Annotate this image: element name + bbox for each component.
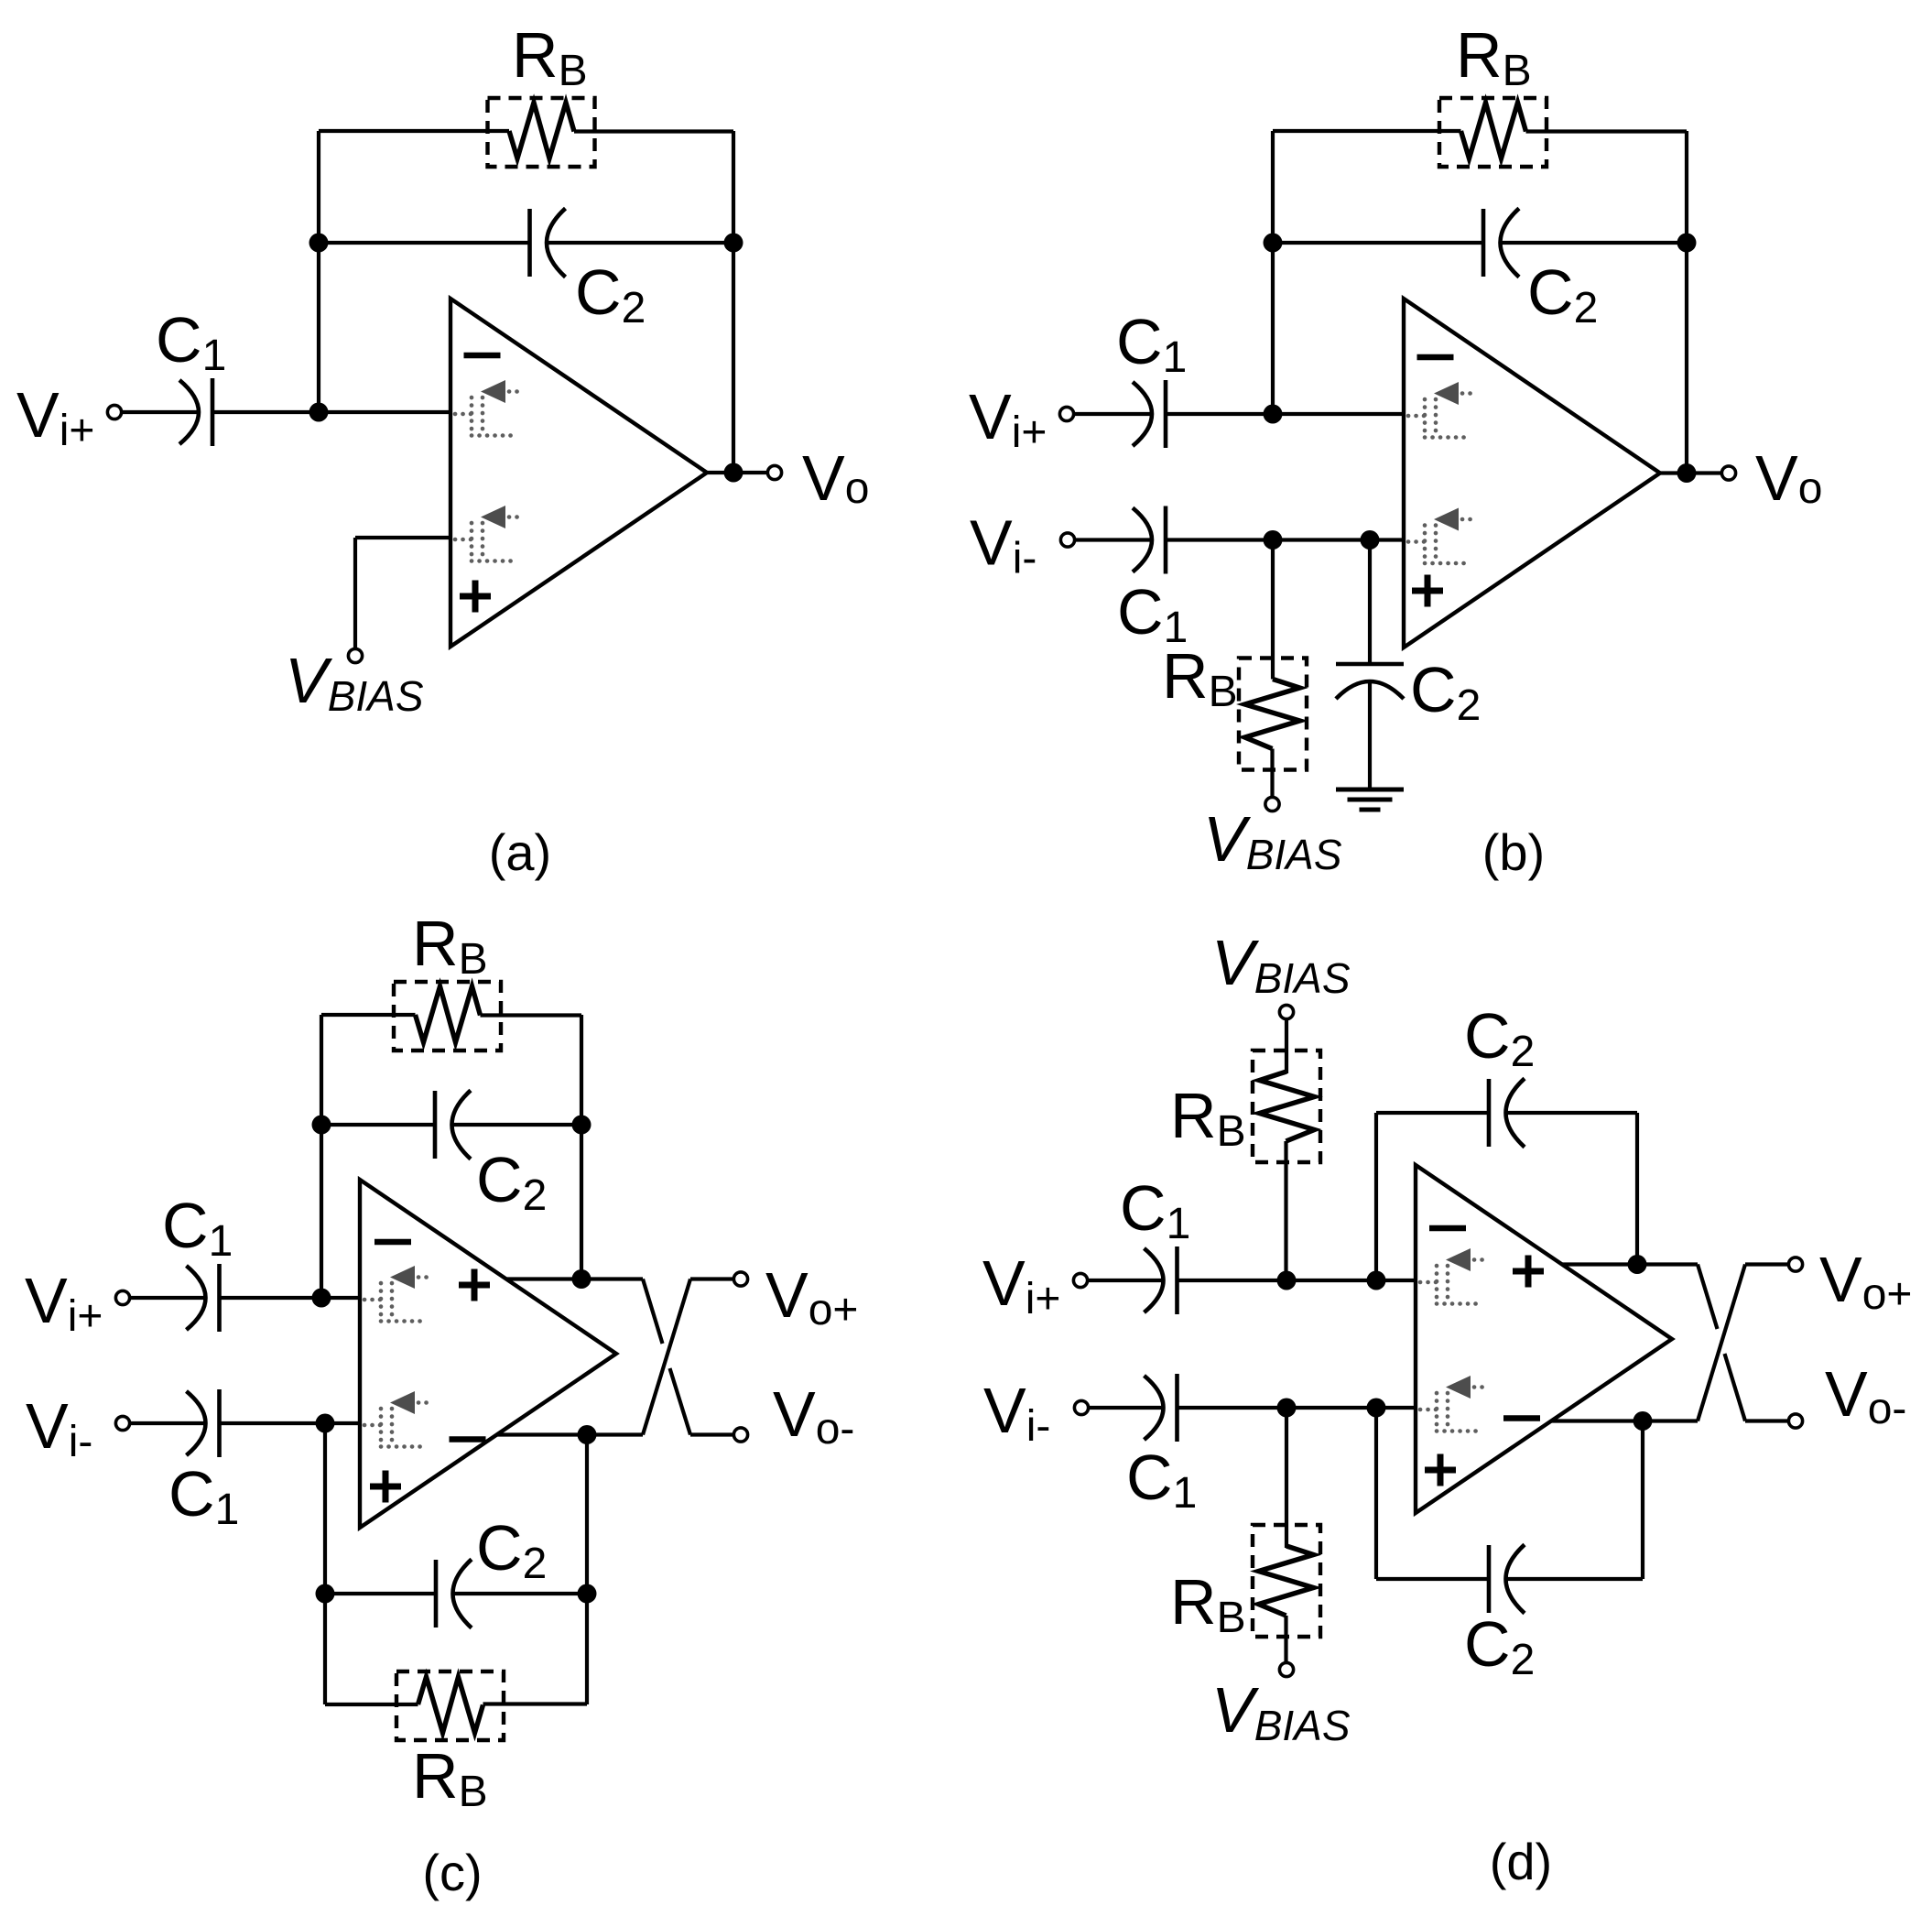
node Vi+ C2 junction (d): [1367, 1271, 1386, 1290]
label Vo- (c): [773, 1378, 854, 1453]
op-amp U2: [1404, 299, 1660, 648]
capacitor C1 upper (d): [1145, 1246, 1178, 1314]
transistor icon upper input U2: [1408, 382, 1475, 438]
label RB bottom (c): [412, 1740, 488, 1816]
plus sign non-inverting input U1: [460, 581, 491, 613]
wire right vertical top (c): [580, 1015, 583, 1279]
wire top feedback left segment: [319, 129, 509, 133]
capacitor C1 upper (b): [1133, 380, 1166, 448]
minus sign lower output U4: [1503, 1415, 1540, 1421]
terminal Vi- (d): [1074, 1400, 1088, 1414]
wire C2 line right segment (b): [1502, 241, 1688, 245]
node top C2 left junction (c): [312, 1116, 331, 1135]
plus sign lower input U3: [370, 1471, 401, 1503]
wire right vertical bottom (d): [1641, 1421, 1644, 1580]
capacitor C2 bottom (d): [1489, 1545, 1525, 1614]
label Vo- (d): [1825, 1358, 1906, 1433]
terminal Vo- (d): [1788, 1414, 1802, 1428]
label C1 upper (d): [1120, 1172, 1190, 1248]
wire Vi- line to RB bottom (d): [1285, 1408, 1288, 1548]
capacitor C1 (a): [179, 378, 212, 446]
node Vi- RB junction (b): [1264, 530, 1283, 550]
terminal VBIAS (a): [348, 648, 362, 662]
terminal Vo+ (c): [733, 1272, 747, 1286]
resistor RB bias (b): [1239, 659, 1307, 770]
label RB top (d): [1170, 1080, 1246, 1156]
label C1 lower (b): [1117, 576, 1188, 652]
terminal Vo- (c): [733, 1428, 747, 1442]
label C1 upper (c): [162, 1190, 233, 1266]
label VBIAS top (d): [1211, 927, 1351, 1002]
wire Vi+ to C1 (d): [1088, 1279, 1164, 1282]
wire output: [707, 471, 767, 474]
wire right vertical bottom (c): [585, 1435, 589, 1705]
wire bottom C2 line left (d): [1376, 1577, 1489, 1581]
wire C1 to inverting input: [212, 410, 450, 414]
label Vo (b): [1755, 442, 1822, 514]
label Vi+ (b): [969, 381, 1047, 457]
wire C1 to upper input (d): [1178, 1279, 1416, 1282]
node inverting input junction (b): [1264, 405, 1283, 424]
transistor icon upper input U1: [455, 380, 522, 436]
wire left vertical feedback: [317, 131, 320, 412]
wire C2 shunt to ground (b): [1368, 681, 1372, 789]
node C2 left junction (b): [1264, 234, 1283, 253]
label RB feedback (b): [1456, 19, 1532, 95]
caption (c): [422, 1844, 482, 1901]
wire top resistor line right (c): [481, 1013, 582, 1017]
wire RB top to Vi+ line (d): [1284, 1141, 1287, 1280]
wire crossing lower-to-upper (d): [1698, 1265, 1745, 1421]
wire left vertical top (d): [1374, 1113, 1378, 1280]
node upper input junction (c): [312, 1289, 331, 1308]
transistor icon lower input U1: [455, 506, 522, 561]
wire crossing lower-to-upper (c): [643, 1279, 690, 1435]
wire C1 to lower input (c): [220, 1421, 361, 1425]
wire C1 to upper input (c): [220, 1296, 361, 1300]
plus sign lower input U4: [1425, 1454, 1456, 1486]
terminal Vi+ (d): [1073, 1273, 1087, 1287]
label C1 upper (b): [1116, 306, 1187, 382]
label C2 feedback (b): [1527, 256, 1598, 332]
terminal Vi+ (c): [115, 1290, 129, 1304]
wire top feedback left segment (b): [1273, 129, 1461, 133]
wire down to RB (b): [1271, 540, 1275, 680]
label Vi- (b): [970, 507, 1037, 583]
wire crossing upper-to-lower (c): [643, 1279, 690, 1435]
label Vo+ (c): [765, 1259, 858, 1334]
wire bottom resistor line right (c): [483, 1702, 588, 1705]
resistor RB feedback (b): [1439, 98, 1547, 167]
minus sign lower output U3: [450, 1436, 486, 1442]
terminal Vo (b): [1721, 466, 1735, 480]
label Vi+ (c): [25, 1265, 103, 1341]
caption (b): [1482, 823, 1545, 881]
ground (b): [1336, 789, 1404, 810]
wire Vi- to C1 (c): [130, 1421, 206, 1425]
terminal VBIAS bottom (d): [1279, 1662, 1293, 1676]
transistor icon upper input U3: [364, 1266, 431, 1322]
wire crossing upper-to-lower (d): [1698, 1265, 1745, 1421]
node bottom C2 right junction (c): [578, 1584, 597, 1604]
terminal Vi+ (a): [107, 405, 121, 419]
wire VBIAS vertical: [353, 538, 357, 649]
wire top feedback right segment: [574, 129, 733, 133]
capacitor C2 shunt (b): [1336, 664, 1404, 699]
capacitor C2 top (d): [1489, 1079, 1525, 1148]
node C2 right junction: [724, 234, 743, 253]
resistor RB feedback (a): [488, 98, 595, 167]
resistor RB bottom (d): [1253, 1525, 1320, 1637]
label VBIAS (b): [1203, 803, 1342, 878]
capacitor C1 lower (c): [187, 1389, 220, 1457]
node inverting input junction: [309, 403, 329, 422]
svg-text:(a): (a): [489, 823, 551, 881]
wire RB to VBIAS terminal (b): [1270, 749, 1274, 798]
label C1 lower (d): [1126, 1442, 1197, 1518]
node lower input junction (c): [316, 1414, 335, 1433]
terminal VBIAS (b): [1265, 797, 1279, 811]
capacitor C1 lower (d): [1145, 1374, 1178, 1442]
wire output (b): [1660, 471, 1721, 474]
label RB top (c): [412, 908, 488, 984]
wire top resistor line left (c): [321, 1013, 416, 1017]
node Vi+ RB junction (d): [1277, 1271, 1297, 1290]
wire bottom resistor line left (c): [325, 1703, 418, 1706]
label RB (a): [512, 19, 588, 95]
plus sign upper output U4: [1513, 1256, 1544, 1288]
node output junction (b): [1677, 463, 1697, 483]
wire VBIAS to RB top (d): [1285, 1019, 1288, 1074]
wire C2 line left segment (b): [1273, 241, 1483, 245]
wire Vi+ to C1 (b): [1074, 412, 1153, 416]
label Vo (a): [802, 442, 869, 514]
wire down to C2 shunt (b): [1368, 540, 1372, 665]
terminal Vo+ (d): [1788, 1257, 1802, 1271]
wire left vertical top (c): [320, 1015, 323, 1298]
wire Vi+ to C1: [122, 410, 200, 414]
label C1 lower (c): [168, 1458, 239, 1534]
wire left vertical bottom (d): [1374, 1408, 1378, 1579]
resistor RB top (d): [1253, 1051, 1320, 1162]
svg-text:(b): (b): [1482, 823, 1545, 881]
wire top C2 line left (d): [1376, 1111, 1489, 1115]
label Vi+ (d): [982, 1247, 1060, 1323]
minus sign upper input U3: [374, 1239, 411, 1246]
label C2 (a): [575, 256, 646, 332]
capacitor C1 lower (b): [1133, 506, 1166, 574]
wire bottom C2 line right (c): [454, 1592, 588, 1595]
transistor icon lower input U4: [1420, 1376, 1487, 1432]
wire right vertical top (d): [1635, 1113, 1639, 1265]
transistor icon lower input U3: [364, 1391, 431, 1447]
wire C1 to inverting input (b): [1166, 412, 1404, 416]
node Vi- C2 junction (d): [1367, 1399, 1386, 1418]
minus sign inverting input U1: [464, 353, 501, 359]
node Vi- C2 junction (b): [1361, 530, 1380, 550]
node lower output junction (c): [578, 1425, 597, 1444]
capacitor C2 top (c): [435, 1091, 471, 1159]
label Vi+ (a): [16, 379, 94, 455]
node lower output junction (d): [1634, 1411, 1653, 1431]
capacitor C2 (a): [530, 209, 566, 278]
op-amp U3: [360, 1180, 616, 1528]
terminal VBIAS top (d): [1279, 1005, 1293, 1018]
node C2 left junction: [309, 234, 329, 253]
wire to Vo- terminal (d): [1745, 1419, 1789, 1422]
label VBIAS bottom (d): [1211, 1674, 1351, 1749]
wire to Vo+ terminal (d): [1745, 1262, 1789, 1266]
wire Vi+ to C1 (c): [130, 1296, 206, 1300]
wire lower output line (c): [496, 1432, 643, 1436]
terminal Vo (a): [767, 465, 781, 479]
caption (a): [489, 823, 551, 881]
label C1 (a): [156, 304, 226, 380]
wire C1 to non-inverting input (b): [1166, 538, 1404, 541]
wire RB bottom to VBIAS (d): [1284, 1616, 1287, 1663]
label RB bias (b): [1162, 640, 1238, 716]
plus sign non-inverting input U2: [1412, 575, 1443, 607]
wire Vi- to C1 (d): [1089, 1406, 1164, 1410]
label Vi- (d): [983, 1375, 1050, 1451]
wire right vertical feedback: [732, 131, 735, 473]
node Vi- RB junction (d): [1277, 1399, 1297, 1418]
wire left vertical bottom (c): [323, 1423, 327, 1704]
minus sign upper input U4: [1429, 1225, 1466, 1232]
wire left vertical feedback (b): [1271, 131, 1275, 414]
label C2 top (c): [476, 1144, 547, 1220]
node upper output junction (d): [1628, 1255, 1647, 1274]
node top C2 right junction (c): [572, 1116, 592, 1135]
capacitor C2 feedback (b): [1483, 209, 1519, 278]
op-amp U1: [450, 299, 707, 647]
resistor RB top (c): [394, 982, 501, 1051]
wire top C2 line right (d): [1507, 1111, 1638, 1115]
wire bottom C2 line right (d): [1507, 1577, 1644, 1581]
terminal Vi- (c): [115, 1416, 129, 1430]
capacitor C2 bottom (c): [436, 1560, 472, 1628]
wire right vertical feedback (b): [1685, 131, 1688, 474]
wire C2 line right segment: [548, 241, 733, 245]
resistor RB bottom (c): [396, 1671, 504, 1740]
label C2 bottom (c): [476, 1512, 547, 1588]
label RB bottom (d): [1170, 1566, 1246, 1642]
transistor icon lower input U2: [1408, 508, 1475, 564]
plus sign upper output U3: [459, 1269, 490, 1301]
wire lower output line (d): [1551, 1419, 1698, 1422]
node C2 right junction (b): [1677, 234, 1697, 253]
terminal Vi- (b): [1060, 533, 1074, 547]
wire top C2 line left (c): [321, 1123, 435, 1127]
node bottom C2 left junction (c): [316, 1584, 335, 1604]
label Vi- (c): [26, 1390, 92, 1466]
wire C1 to lower input (d): [1178, 1406, 1416, 1410]
wire to Vo+ terminal (c): [690, 1277, 734, 1280]
svg-text:(d): (d): [1490, 1833, 1552, 1890]
caption (d): [1490, 1833, 1552, 1890]
wire C2 line left segment: [319, 241, 530, 245]
svg-text:(c): (c): [422, 1844, 482, 1901]
wire upper output line (c): [506, 1277, 643, 1280]
minus sign inverting input U2: [1417, 354, 1454, 361]
wire VBIAS horizontal: [355, 536, 450, 539]
node output junction: [724, 463, 743, 483]
wire upper output line (d): [1562, 1262, 1698, 1266]
terminal Vi+ (b): [1059, 407, 1073, 420]
capacitor C1 upper (c): [187, 1264, 220, 1332]
node upper output junction (c): [572, 1269, 592, 1289]
wire top C2 line right (c): [453, 1123, 582, 1127]
label C2 shunt (b): [1410, 654, 1481, 730]
transistor icon upper input U4: [1420, 1248, 1487, 1304]
label C2 bottom (d): [1464, 1608, 1535, 1684]
wire Vi- to C1 (b): [1075, 538, 1153, 541]
wire bottom C2 line left (c): [325, 1592, 436, 1595]
op-amp U4: [1416, 1165, 1672, 1513]
label VBIAS (a): [285, 645, 424, 720]
label C2 top (d): [1464, 1000, 1535, 1076]
wire to Vo- terminal (c): [690, 1432, 734, 1436]
label Vo+ (d): [1819, 1244, 1912, 1319]
wire top feedback right segment (b): [1526, 129, 1688, 133]
